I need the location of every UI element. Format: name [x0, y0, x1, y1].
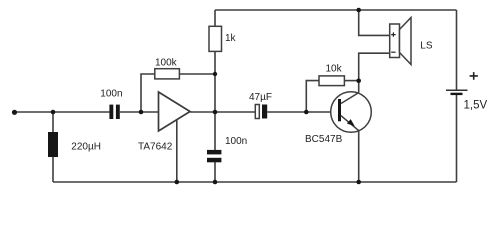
wire battery negative lead — [456, 95, 458, 182]
svg-text:10k: 10k — [326, 64, 343, 75]
svg-text:1,5V: 1,5V — [464, 99, 488, 111]
wire feedback right — [180, 73, 216, 75]
wire collector to speaker minus — [359, 53, 390, 92]
wire input cap to amp — [120, 111, 159, 113]
node junction feedback/input — [139, 110, 144, 115]
node antenna input terminal — [12, 110, 17, 115]
inductor L1 220µH — [48, 132, 101, 157]
wire 1k top lead — [214, 10, 216, 26]
resistor R3 10k — [319, 64, 344, 86]
svg-text:100n: 100n — [225, 136, 247, 147]
node junction 10k/collector — [356, 79, 361, 84]
wire emitter to ground — [358, 131, 360, 183]
wire 47uF to transistor base — [267, 111, 338, 113]
node junction inductor/input — [51, 110, 56, 115]
resistor R2 1k — [209, 26, 237, 51]
svg-text:TA7642: TA7642 — [138, 142, 173, 153]
node junction speaker plus rail — [356, 8, 361, 13]
wire TA7642 ground pin — [176, 120, 178, 182]
node junction TA7642 ground — [175, 180, 180, 185]
wire top supply rail — [215, 9, 457, 11]
node junction amp output — [213, 110, 218, 115]
speaker LS — [390, 18, 433, 65]
op-amp U1 TA7642 — [138, 92, 190, 153]
wire speaker plus from rail — [359, 10, 390, 35]
node junction 10k/base — [304, 110, 309, 115]
svg-text:100n: 100n — [100, 89, 122, 100]
node junction shunt cap ground — [213, 180, 218, 185]
transistor Q1 BC547B — [305, 92, 371, 145]
wire 1k bottom to output node — [214, 51, 216, 150]
wire 10k right lead — [344, 80, 358, 82]
battery B1 1,5V — [446, 72, 487, 111]
node junction emitter ground — [356, 180, 361, 185]
svg-text:BC547B: BC547B — [305, 134, 343, 145]
wire inductor bottom lead — [52, 157, 54, 182]
wire battery positive lead — [456, 10, 458, 90]
capacitor C1 100n (series input) — [100, 89, 122, 119]
wire 10k left lead — [306, 81, 319, 112]
svg-text:220µH: 220µH — [71, 142, 101, 153]
wire inductor top lead — [52, 112, 54, 132]
wire amp output — [190, 111, 255, 113]
svg-text:1k: 1k — [225, 33, 237, 44]
resistor R1 100k — [155, 57, 180, 79]
wire antenna input left — [14, 111, 109, 113]
capacitor C2 100n (shunt) — [207, 136, 247, 162]
node junction 100k/1k — [213, 72, 217, 76]
wire shunt cap to ground — [214, 162, 216, 182]
wire feedback left — [141, 74, 155, 112]
svg-text:47µF: 47µF — [249, 92, 272, 103]
svg-text:100k: 100k — [155, 57, 178, 68]
wire bottom ground rail — [53, 181, 457, 183]
capacitor C3 47µF (electrolytic) — [249, 92, 272, 119]
svg-text:LS: LS — [420, 41, 433, 52]
